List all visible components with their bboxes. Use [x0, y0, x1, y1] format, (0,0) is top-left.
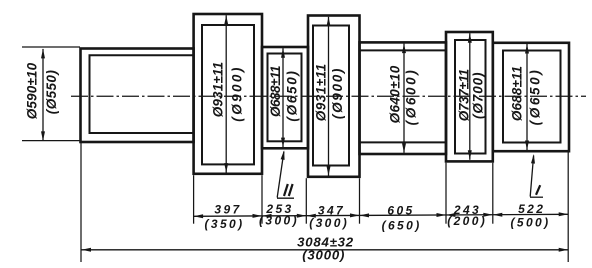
svg-text:(350): (350): [204, 217, 244, 231]
svg-text:(Ø550): (Ø550): [44, 70, 59, 115]
svg-text:(650): (650): [382, 219, 422, 233]
svg-text:(300): (300): [309, 216, 349, 230]
svg-text:(300): (300): [259, 214, 299, 228]
svg-text:Ø931±11: Ø931±11: [211, 62, 226, 118]
svg-text:(Ø700): (Ø700): [470, 72, 485, 119]
svg-text:(Ø650): (Ø650): [285, 69, 300, 121]
svg-text:(Ø900): (Ø900): [330, 67, 345, 119]
svg-text:Ø931±11: Ø931±11: [314, 63, 329, 121]
svg-text:522: 522: [518, 202, 545, 216]
svg-text:(200): (200): [447, 214, 487, 228]
svg-text:(500): (500): [510, 216, 550, 230]
svg-text:605: 605: [387, 204, 414, 218]
svg-text:Ø688±11: Ø688±11: [510, 66, 525, 121]
svg-text:Ø737±11: Ø737±11: [456, 69, 471, 121]
svg-text:(Ø650): (Ø650): [528, 68, 543, 126]
svg-text:397: 397: [214, 203, 241, 217]
svg-text:Ø640±10: Ø640±10: [388, 65, 403, 123]
svg-text:(Ø900): (Ø900): [230, 65, 245, 121]
svg-text:Ø590±10: Ø590±10: [24, 62, 39, 119]
svg-text:Ø688±11: Ø688±11: [268, 66, 283, 117]
svg-text:(Ø600): (Ø600): [404, 68, 419, 126]
svg-text:(3000): (3000): [302, 247, 345, 262]
